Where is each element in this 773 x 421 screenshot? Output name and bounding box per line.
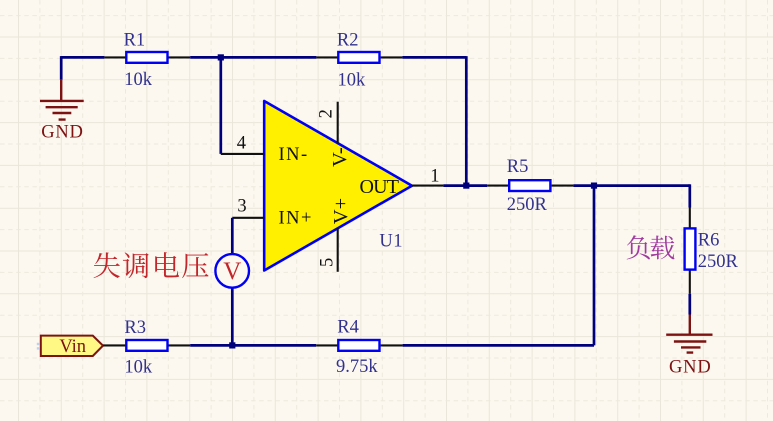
- node C junction: [591, 183, 597, 189]
- wire bottom right horizontal: [403, 344, 594, 347]
- wire R2 to right corner: [402, 56, 466, 59]
- ground GND left: [40, 80, 84, 143]
- svg-text:10k: 10k: [124, 358, 152, 378]
- svg-text:R6: R6: [698, 230, 720, 250]
- text char fu (负): [627, 235, 650, 259]
- text char dian (电): [155, 252, 179, 277]
- svg-text:R4: R4: [337, 317, 359, 337]
- svg-text:9.75k: 9.75k: [336, 357, 378, 377]
- svg-text:V+: V+: [330, 198, 352, 224]
- svg-text:10k: 10k: [124, 70, 153, 90]
- resistor R2: [316, 31, 402, 91]
- wire R6 to GND: [688, 294, 691, 315]
- wire R1 to node A: [190, 56, 221, 59]
- resistor R6: [685, 208, 739, 294]
- text char tiao (调): [123, 252, 149, 278]
- svg-text:Vin: Vin: [59, 337, 86, 357]
- resistor R1: [104, 31, 190, 90]
- svg-text:U1: U1: [379, 232, 403, 252]
- text char shi (失): [94, 252, 120, 278]
- wire feedback right vertical down to output node: [465, 56, 468, 186]
- wire node C down to bottom: [593, 186, 596, 346]
- node D junction: [229, 342, 235, 348]
- node A junction: [218, 54, 224, 60]
- svg-text:R2: R2: [337, 31, 359, 51]
- wire V source to pin 3: [231, 218, 234, 254]
- resistor R5: [487, 157, 573, 215]
- voltage source V (offset voltage): [215, 254, 249, 288]
- svg-text:GND: GND: [41, 123, 83, 143]
- pin 3 lead: [232, 197, 264, 218]
- svg-text:250R: 250R: [507, 195, 548, 215]
- pin 1 lead: [412, 167, 443, 187]
- wire feedback vertical node A to pin 4: [219, 57, 222, 153]
- wire R3 to node D: [190, 344, 316, 347]
- svg-text:250R: 250R: [698, 252, 739, 272]
- resistor R4: [316, 317, 402, 377]
- svg-text:2: 2: [317, 109, 337, 118]
- pin 4 lead: [221, 133, 264, 154]
- svg-text:R5: R5: [507, 157, 529, 177]
- wire output to R5: [443, 184, 487, 187]
- wire top-left GND to R1: [61, 56, 104, 59]
- svg-text:R3: R3: [124, 318, 146, 338]
- text char zai (载): [650, 236, 674, 260]
- resistor R3: [103, 318, 190, 378]
- svg-text:R1: R1: [124, 31, 146, 51]
- wire load corner down to R6: [688, 184, 691, 207]
- op-amp U1: [264, 101, 412, 271]
- ground GND right: [666, 315, 712, 378]
- svg-text:10k: 10k: [338, 71, 367, 91]
- selection grips left of Vin port: [37, 343, 44, 350]
- wire node A to R2: [221, 56, 317, 59]
- svg-text:OUT: OUT: [360, 176, 399, 198]
- svg-text:3: 3: [237, 197, 246, 217]
- wire R5 to load corner: [573, 184, 689, 187]
- svg-text:IN+: IN+: [279, 209, 313, 229]
- svg-text:V: V: [223, 258, 241, 285]
- pin 5 lead: [317, 228, 337, 272]
- svg-text:1: 1: [430, 167, 439, 187]
- svg-text:V-: V-: [329, 147, 351, 167]
- svg-text:GND: GND: [669, 358, 711, 378]
- pin 2 lead: [317, 102, 338, 144]
- text char ya (压): [182, 253, 208, 278]
- svg-text:4: 4: [237, 133, 246, 153]
- wire V source to node D: [231, 288, 234, 345]
- svg-text:5: 5: [317, 258, 337, 267]
- svg-text:IN-: IN-: [279, 145, 309, 165]
- wire GND stub vertical: [60, 56, 63, 80]
- node B junction (output): [463, 183, 469, 189]
- port Vin: [41, 336, 103, 358]
